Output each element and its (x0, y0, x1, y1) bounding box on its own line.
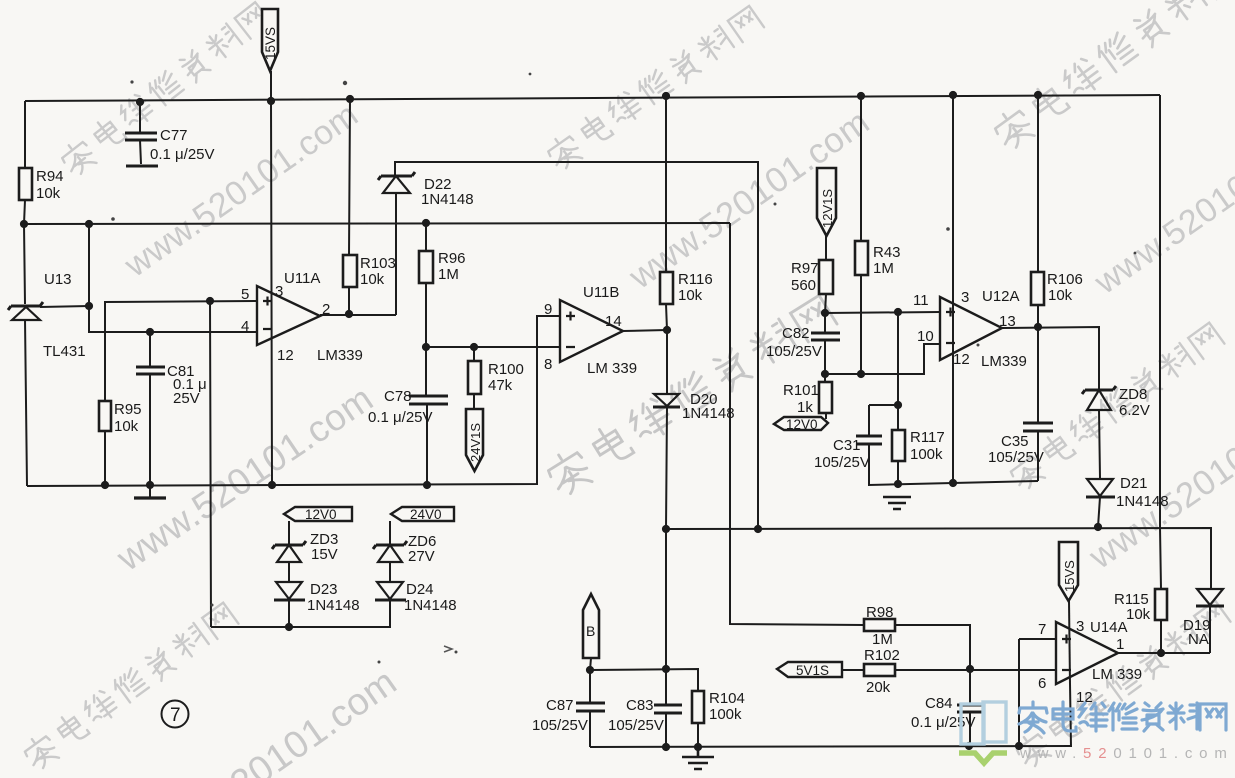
svg-text:TL431: TL431 (43, 343, 86, 360)
wire right vertical from top bus through R115 (1160, 95, 1161, 653)
svg-text:U14A: U14A (1090, 619, 1128, 636)
paper speck (1134, 252, 1137, 255)
wire node to U11A pin4 (89, 224, 257, 332)
wire R95 leads from pin5 wire down to ground bus (104, 302, 106, 485)
power flag 24V1S (466, 409, 483, 471)
svg-text:105/25V: 105/25V (814, 454, 870, 471)
svg-text:12V0: 12V0 (305, 507, 337, 522)
zener ZD8 6.2V (1082, 386, 1150, 419)
wire R106 leads (1037, 95, 1039, 327)
svg-text:24V0: 24V0 (410, 507, 442, 522)
power flag 12V1S (817, 168, 836, 236)
junction C83 ground bus (662, 743, 670, 751)
logo text 家电维修资料网 blue (1019, 702, 1226, 733)
power flag 15VS top (262, 9, 278, 71)
junction R97 pin11 node (821, 309, 829, 317)
junction C78 ground bus (423, 481, 431, 489)
svg-text:1: 1 (1116, 636, 1124, 653)
svg-text:3: 3 (961, 289, 969, 306)
junction C84 ground bus (965, 742, 973, 750)
svg-text:20k: 20k (866, 679, 891, 696)
svg-text:R101: R101 (783, 382, 819, 399)
wire U12A pin13 output to ZD8 D21 (1002, 327, 1100, 527)
junction R96 bus2 (422, 219, 430, 227)
svg-text:12: 12 (953, 351, 970, 368)
wire U12A pin3 and pin12 verticals (952, 95, 954, 483)
junction pin12 ground bus (268, 481, 276, 489)
svg-text:R95: R95 (114, 401, 142, 418)
resistor R94 (19, 168, 64, 202)
junction R106 top bus (1034, 91, 1042, 99)
zener ZD3 15V (272, 531, 338, 563)
svg-text:R104: R104 (709, 690, 745, 707)
paper speck (529, 73, 532, 76)
resistor R103 (343, 255, 396, 288)
svg-text:LM339: LM339 (981, 353, 1027, 370)
resistor R102 horizontal (864, 647, 900, 696)
wire zener string loop to ground bus (211, 626, 391, 628)
svg-text:13: 13 (999, 313, 1016, 330)
capacitor C78 (368, 388, 448, 426)
logo icon squares (961, 702, 1006, 744)
svg-text:U11A: U11A (284, 270, 320, 287)
junction 15VS top bus (267, 97, 275, 105)
svg-text:C35: C35 (1001, 433, 1029, 450)
wire 15VS flag to U14A pin3 (1069, 601, 1070, 684)
svg-text:LM339: LM339 (317, 347, 363, 364)
wire ground bus left section up to U11B pin9 (27, 316, 560, 486)
net flag B (583, 594, 599, 658)
junction TL431 node (85, 302, 93, 310)
junction D23 loop (285, 623, 293, 631)
svg-text:27V: 27V (408, 548, 435, 565)
junction R95 ground bus (101, 481, 109, 489)
capacitor C81 (136, 363, 207, 407)
op-amp U11A LM339 (241, 270, 363, 364)
svg-text:C31: C31 (833, 437, 861, 454)
diode D19 NA (1183, 589, 1224, 648)
wire U12A pin10 input (825, 344, 940, 374)
svg-text:3: 3 (1076, 618, 1084, 635)
svg-text:7: 7 (170, 705, 181, 726)
svg-text:10k: 10k (1048, 287, 1073, 304)
svg-text:12: 12 (277, 347, 294, 364)
svg-text:7: 7 (1038, 621, 1046, 638)
wire TL431 cathode to node (40, 306, 89, 307)
svg-text:12V0: 12V0 (786, 417, 818, 432)
wire ZD6 D24 string (389, 521, 391, 627)
junction R117 pin11 wire (894, 308, 902, 316)
svg-text:10k: 10k (678, 287, 703, 304)
svg-text:15VS: 15VS (1062, 560, 1077, 592)
junction R104 ground bus (694, 743, 702, 751)
resistor R116 (660, 271, 713, 304)
svg-text:6: 6 (1038, 675, 1046, 692)
svg-text:R116: R116 (678, 271, 713, 288)
capacitor C31 (814, 436, 882, 471)
junction R100 pin8 wire (470, 343, 478, 351)
svg-text:105/25V: 105/25V (532, 717, 588, 734)
svg-text:R117: R117 (910, 429, 945, 446)
svg-text:1k: 1k (797, 399, 813, 416)
svg-text:1N4148: 1N4148 (404, 597, 457, 614)
wire bottom ground bus right section (590, 746, 1071, 747)
wire U11B pin14 output (623, 330, 667, 331)
wire 15VS top power bus (25, 95, 1160, 101)
svg-text:C77: C77 (160, 127, 188, 144)
paper speck (111, 217, 115, 221)
svg-text:D21: D21 (1120, 475, 1148, 492)
capacitor C87 (532, 697, 605, 734)
wire R117 leads (897, 312, 899, 484)
svg-text:1N4148: 1N4148 (421, 191, 474, 208)
svg-text:U13: U13 (44, 271, 72, 288)
svg-text:24V1S: 24V1S (468, 423, 483, 462)
junction D22 net529 (754, 525, 762, 533)
svg-text:10k: 10k (114, 418, 139, 435)
resistor R97 (791, 260, 833, 294)
junction C83 node (662, 665, 670, 673)
svg-text:LM 339: LM 339 (587, 360, 637, 377)
svg-text:C83: C83 (626, 697, 654, 714)
svg-text:25V: 25V (173, 390, 200, 407)
wire horizontal net to D21 D19 (666, 528, 1211, 653)
svg-text:D23: D23 (310, 581, 338, 598)
wire left branch from bus down to R94 and TL431 (24, 101, 27, 486)
diode D24 1N4148 (375, 581, 457, 614)
wire R101 leads (825, 374, 826, 419)
junction R98 R102 C84 node (966, 665, 974, 673)
svg-text:10k: 10k (1126, 606, 1151, 623)
resistor R117 (892, 429, 945, 463)
junction C31 R117 node (894, 401, 902, 409)
paper speck (343, 81, 347, 85)
resistor R106 (1031, 271, 1083, 305)
wire C77 leads (140, 102, 141, 164)
diode D21 1N4148 (1086, 475, 1169, 510)
svg-text:www.520101.com: www.520101.com (1019, 745, 1234, 762)
junction C81 ground bus (146, 481, 154, 489)
junction pin12 bottom wire (949, 479, 957, 487)
logo green check (959, 753, 1007, 763)
paper speck (211, 604, 214, 607)
svg-text:3: 3 (275, 283, 283, 300)
wire R100 leads (473, 347, 475, 409)
svg-text:12V1S: 12V1S (820, 189, 835, 228)
svg-text:R103: R103 (360, 255, 396, 272)
wire U11B pin8 input (426, 346, 560, 348)
junction D21 net529 (1094, 523, 1102, 531)
junction U12A pin3 top bus (949, 91, 957, 99)
svg-text:0.1 μ/25V: 0.1 μ/25V (368, 409, 433, 426)
junction C82 pin10 node (821, 370, 829, 378)
resistor R96 (419, 250, 466, 283)
wire 5V1S R102 to U14A pin6 (842, 669, 1056, 671)
junction C77 top bus (136, 98, 144, 106)
svg-text:D24: D24 (406, 581, 434, 598)
zener ZD6 27V (373, 533, 436, 565)
wire B flag node with C87 C83 R104 (590, 658, 698, 747)
capacitor C82 (766, 325, 840, 360)
wire R116 branch: top bus through D20 down to bottom (666, 96, 667, 747)
svg-text:47k: 47k (488, 377, 513, 394)
capacitor C84 (911, 695, 984, 731)
wire 12V1S flag to R97 to pin11 node (825, 236, 826, 313)
junction node bus2 (85, 220, 93, 228)
op-amp U11B LM339 (544, 284, 637, 377)
svg-text:560: 560 (791, 277, 816, 294)
power flag 15VS bottom (1059, 542, 1078, 601)
junction R43 pin10 wire (857, 370, 865, 378)
paper speck (977, 344, 980, 347)
svg-text:C82: C82 (782, 325, 810, 342)
svg-text:ZD8: ZD8 (1119, 386, 1147, 403)
ground below R117 (883, 497, 911, 509)
resistor R115 (1114, 589, 1167, 623)
svg-text:C87: C87 (546, 697, 574, 714)
diode D22 1N4148 (378, 172, 474, 208)
shunt regulator U13 TL431 (8, 271, 86, 360)
svg-text:R96: R96 (438, 250, 466, 267)
svg-text:105/25V: 105/25V (766, 343, 822, 360)
capacitor C77 (125, 127, 215, 166)
svg-text:R100: R100 (488, 361, 524, 378)
resistor R95 (99, 401, 142, 435)
junction C81 pin4 wire (146, 328, 154, 336)
op-amp U14A LM339 (1038, 618, 1142, 706)
svg-text:0.1 μ/25V: 0.1 μ/25V (150, 146, 215, 163)
net flag 12V0 right (774, 417, 828, 432)
svg-text:15VS: 15VS (263, 27, 278, 60)
resistor R43 (855, 241, 901, 277)
net flag 12V0 left (284, 507, 352, 522)
wire C31 branch and U12 bottom wire (869, 405, 1038, 485)
junction R117 bottom wire (894, 480, 902, 488)
svg-text:10k: 10k (36, 185, 61, 202)
svg-text:100k: 100k (709, 706, 742, 723)
paper speck (774, 203, 777, 206)
svg-text:0.1 μ/25V: 0.1 μ/25V (911, 714, 976, 731)
svg-text:1N4148: 1N4148 (1116, 493, 1169, 510)
svg-text:9: 9 (544, 301, 552, 318)
svg-text:LM 339: LM 339 (1092, 666, 1142, 683)
junction pin5 corner (206, 297, 214, 305)
junction R103 top bus (346, 95, 354, 103)
wire C78 leads (426, 347, 427, 485)
resistor R101 (783, 382, 832, 416)
junction R103 output wire (345, 310, 353, 318)
wire C35 leads (1037, 327, 1039, 481)
svg-text:10: 10 (917, 328, 934, 345)
wire U14A pin1 output (1118, 652, 1210, 654)
svg-text:105/25V: 105/25V (988, 449, 1044, 466)
junction R96 pin8 wire (422, 343, 430, 351)
paper speck (378, 661, 381, 664)
svg-text:1N4148: 1N4148 (307, 597, 360, 614)
wire from bus2 down to R98 and C84 node (730, 223, 970, 746)
svg-text:R98: R98 (866, 604, 894, 621)
wire C81 leads and ground stub (149, 332, 151, 497)
wire U11A pin2 output to D22 and over to right (320, 162, 758, 529)
svg-text:2: 2 (322, 301, 330, 318)
net flag 24V0 (391, 507, 454, 522)
wire U12A pin11 input (825, 312, 940, 313)
svg-text:R43: R43 (873, 244, 901, 261)
net flag 5V1S (777, 662, 842, 678)
resistor R104 (692, 690, 745, 723)
paper speck (455, 651, 458, 654)
paper speck (946, 227, 950, 231)
ground at C81 (134, 496, 166, 499)
junction pin14 output (663, 326, 671, 334)
svg-text:6.2V: 6.2V (1119, 402, 1150, 419)
wire C82 leads (824, 313, 826, 374)
svg-text:U12A: U12A (982, 288, 1020, 305)
svg-text:1M: 1M (438, 266, 459, 283)
svg-text:1M: 1M (872, 631, 893, 648)
wire second horizontal bus (24, 223, 730, 224)
wire 15VS flag to U11A pin3 and pin12 to ground (271, 71, 272, 485)
svg-text:R97: R97 (791, 260, 819, 277)
page number 7 (162, 701, 189, 728)
svg-text:15V: 15V (311, 546, 338, 563)
svg-text:10k: 10k (360, 271, 385, 288)
svg-text:5V1S: 5V1S (796, 663, 829, 678)
svg-text:14: 14 (605, 313, 622, 330)
ground below R104 (682, 747, 714, 769)
junction B flag node (586, 666, 594, 674)
svg-text:C84: C84 (925, 695, 953, 712)
paper speck (444, 646, 452, 652)
svg-text:11: 11 (913, 292, 929, 309)
svg-text:R94: R94 (36, 168, 64, 185)
wire ZD3 D23 string (288, 521, 290, 627)
diode D23 1N4148 (274, 581, 360, 614)
junction pin7 ground bus (1015, 742, 1023, 750)
svg-text:1N4148: 1N4148 (682, 405, 735, 422)
wire U11A pin5 to R95 corner and zener loop tee (104, 301, 257, 627)
wire R96 leads (425, 223, 427, 347)
svg-text:R102: R102 (864, 647, 900, 664)
junction D20 net529 (662, 525, 670, 533)
junction R106 pin13 output (1034, 323, 1042, 331)
wire R43 leads (860, 96, 862, 374)
op-amp U12A LM339 (913, 288, 1027, 370)
junction R116 top bus (662, 92, 670, 100)
paper speck (130, 80, 133, 83)
junction R94 bus2 (20, 220, 28, 228)
resistor R98 horizontal (864, 604, 895, 648)
svg-text:U11B: U11B (583, 284, 619, 301)
svg-text:R106: R106 (1047, 271, 1083, 288)
svg-text:105/25V: 105/25V (608, 717, 664, 734)
resistor R100 (468, 361, 524, 394)
capacitor C35 (988, 423, 1053, 466)
diode D20 1N4148 (653, 391, 735, 422)
svg-text:1M: 1M (873, 260, 894, 277)
capacitor C83 (608, 697, 682, 734)
junction R115 pin1 output (1157, 649, 1165, 657)
svg-text:4: 4 (241, 318, 249, 335)
svg-text:NA: NA (1188, 631, 1209, 648)
svg-text:100k: 100k (910, 446, 943, 463)
wire U14A pin12 to ground bus (1070, 684, 1071, 747)
svg-text:C78: C78 (384, 388, 412, 405)
svg-text:8: 8 (544, 356, 552, 373)
wire U14A pin7 to ground bus (1019, 639, 1056, 746)
wire R103 leads from top bus (349, 99, 350, 315)
svg-text:5: 5 (241, 286, 249, 303)
svg-text:B: B (586, 623, 595, 639)
junction R43 top bus (857, 92, 865, 100)
